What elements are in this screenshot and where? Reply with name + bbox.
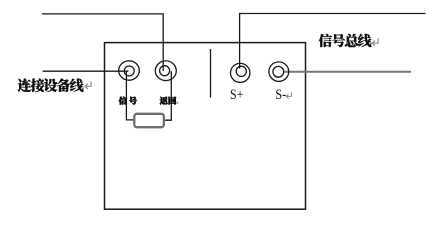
device box — [105, 43, 306, 210]
terminal 4 (S-) — [269, 62, 289, 82]
wire: terminal 2 down to resistor — [164, 71, 171, 120]
wire: mid-left into terminal 1 — [43, 70, 129, 72]
svg-text:S-: S- — [275, 87, 286, 103]
label: terminal2 return — [160, 97, 168, 105]
wire: top-right signal bus to terminal S+ — [240, 14, 426, 69]
wire: gray S- line to right — [285, 71, 412, 73]
label: connecting device line — [18, 79, 31, 92]
terminal 1 (signal) — [119, 61, 140, 80]
terminal 2 (return) — [155, 61, 176, 81]
divider line inside box — [210, 49, 212, 98]
resistor (EOL) — [134, 114, 164, 127]
label: signal bus — [319, 34, 332, 47]
svg-text:S+: S+ — [230, 87, 244, 103]
wire: top-left from device line to terminal 2 — [42, 14, 163, 71]
label: terminal1 signal — [119, 97, 127, 105]
terminal 3 (S+) — [231, 63, 250, 82]
wire: terminal 1 down to resistor — [126, 71, 134, 120]
